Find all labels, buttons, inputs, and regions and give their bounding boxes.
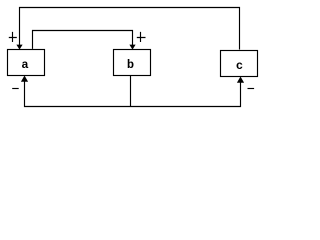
arrowhead into b top	[129, 45, 135, 50]
wire b bottom output	[130, 76, 132, 107]
plus sign at a top input	[9, 32, 17, 42]
svg-text:b: b	[127, 58, 134, 72]
wire bottom feedback from b to a bottom and c bottom	[25, 81, 241, 107]
plus sign at b top input	[137, 32, 146, 42]
wire a top output to b top input	[33, 31, 133, 49]
minus sign at a bottom input	[12, 88, 19, 90]
wire top feedback loop from c output to a top input	[20, 8, 240, 50]
block c box	[221, 51, 258, 77]
arrowhead into c bottom	[237, 77, 244, 83]
svg-text:c: c	[236, 59, 243, 73]
arrowhead into a top	[16, 45, 22, 50]
minus sign at c bottom input	[248, 88, 255, 90]
block b box	[114, 50, 151, 76]
svg-text:a: a	[21, 58, 28, 72]
block a box	[8, 50, 45, 76]
arrowhead into a bottom	[21, 76, 28, 82]
